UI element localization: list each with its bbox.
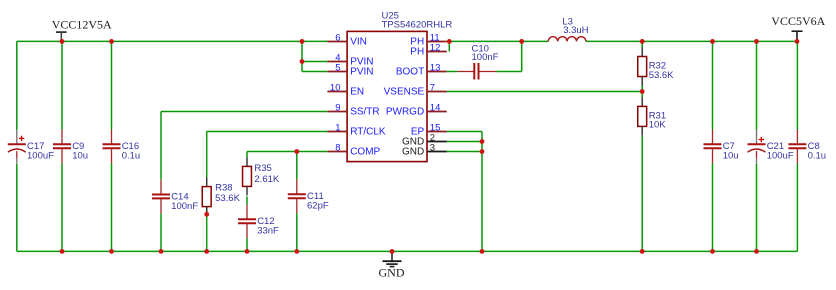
junction PVIN4 tap: [300, 59, 305, 64]
svg-text:5: 5: [335, 62, 340, 73]
svg-text:0.1u: 0.1u: [122, 151, 141, 162]
svg-text:12: 12: [430, 42, 441, 53]
wire R31 bottom link: [641, 135, 643, 251]
capacitor C9: [53, 130, 88, 164]
junction PH / R32: [640, 39, 645, 44]
wire C11 column upper: [296, 152, 298, 180]
capacitor C17: [8, 130, 54, 164]
svg-text:RT/CLK: RT/CLK: [350, 127, 386, 138]
wire C17 column upper: [16, 41, 18, 129]
pin 1 RT/CLK: [327, 122, 386, 137]
inductor L3: [548, 17, 588, 42]
svg-text:7: 7: [430, 82, 435, 93]
capacitor C10: [447, 43, 499, 79]
wire C12 column lower: [246, 238, 248, 251]
wire C9 column upper: [61, 41, 63, 129]
svg-text:100uF: 100uF: [27, 151, 54, 162]
pin 8 COMP: [327, 142, 380, 157]
wire GND pin3 link: [447, 151, 482, 153]
junction bottom bus / C12: [245, 249, 250, 254]
svg-text:10u: 10u: [723, 151, 739, 162]
wire COMP net: [247, 151, 327, 153]
junction COMP / C11: [294, 149, 299, 154]
junction PH pins tie: [447, 39, 452, 44]
junction bottom bus / C7: [710, 249, 715, 254]
wire C11 column lower: [296, 213, 298, 251]
wire R38 column lower: [206, 207, 208, 252]
junction VCC5V6A bus / C21: [754, 39, 759, 44]
wire EP GND riser: [481, 132, 483, 252]
junction VIN bus / C9 / VCC12V5A: [60, 39, 65, 44]
svg-text:VCC5V6A: VCC5V6A: [771, 14, 825, 28]
power flag VCC5V6A: [771, 14, 825, 41]
junction bottom bus / C11: [294, 249, 299, 254]
svg-text:10K: 10K: [649, 119, 667, 130]
wire VIN top bus: [17, 40, 328, 42]
svg-text:COMP: COMP: [350, 147, 380, 158]
svg-text:1: 1: [335, 122, 340, 133]
svg-text:VCC12V5A: VCC12V5A: [52, 18, 112, 32]
svg-text:PH: PH: [410, 47, 424, 58]
wire R32 top link: [641, 41, 643, 47]
power flag VCC12V5A: [52, 18, 112, 42]
resistor R32: [638, 48, 674, 86]
svg-text:33nF: 33nF: [257, 226, 279, 237]
wire C16 column lower: [111, 163, 113, 251]
svg-text:10u: 10u: [72, 151, 88, 162]
svg-text:VIN: VIN: [350, 37, 367, 48]
junction VSENSE divider tap: [640, 89, 645, 94]
svg-text:9: 9: [335, 102, 340, 113]
ground symbol GND: [379, 251, 405, 279]
wire C7 column upper: [712, 41, 714, 129]
pin 11 PH: [410, 32, 447, 47]
capacitor C7: [704, 130, 739, 164]
wire BOOT to C10 riser link: [496, 71, 522, 73]
svg-text:53.6K: 53.6K: [215, 193, 240, 204]
capacitor C16: [103, 130, 141, 164]
junction VCC5V6A flag / C8: [795, 39, 800, 44]
wire R35 to C12 link: [246, 196, 248, 204]
resistor R31: [638, 97, 667, 135]
junction bottom bus / C9: [60, 249, 65, 254]
wire PVIN drop: [301, 41, 303, 71]
svg-text:R35: R35: [254, 163, 271, 174]
resistor R35: [243, 157, 280, 195]
svg-text:PVIN: PVIN: [350, 67, 373, 78]
svg-text:0.1u: 0.1u: [808, 151, 827, 162]
wire PH to L3: [447, 40, 549, 42]
wire R35 top stub link: [246, 152, 248, 158]
wire C7 column lower: [712, 163, 714, 251]
pin 10 EN: [327, 82, 364, 97]
capacitor C11: [288, 180, 329, 214]
wire C21 column upper: [756, 41, 758, 129]
svg-text:2.61K: 2.61K: [254, 174, 279, 185]
pin 6 VIN: [327, 32, 366, 47]
wire PVIN pin5 link: [302, 71, 327, 73]
wire GND pin2 link: [447, 141, 482, 143]
capacitor C8: [788, 130, 826, 164]
junction R38 lower pin: [204, 212, 209, 217]
pin 15 EP: [411, 122, 447, 137]
wire C16 column upper: [111, 41, 113, 129]
wire RT/CLK to R38: [207, 131, 328, 133]
wire L3 to VCC5V6A bus: [586, 40, 798, 42]
wire PVIN pin4 link: [302, 61, 327, 63]
pin 4 PVIN: [327, 52, 373, 67]
svg-text:100uF: 100uF: [767, 151, 794, 162]
svg-text:GND: GND: [402, 147, 424, 158]
junction EP riser / GND2: [480, 139, 485, 144]
svg-text:14: 14: [430, 102, 441, 113]
svg-text:BOOT: BOOT: [396, 67, 424, 78]
svg-text:PWRGD: PWRGD: [386, 107, 424, 118]
pin 3 GND: [402, 142, 447, 157]
pin 13 BOOT: [396, 62, 447, 77]
junction PH / C10 riser: [519, 39, 524, 44]
svg-text:R38: R38: [215, 183, 232, 194]
IC U25 TPS54620RHLR: [347, 11, 452, 162]
pin 9 SS/TR: [327, 102, 379, 117]
pin 2 GND: [402, 132, 447, 147]
wire R38 column upper: [206, 132, 208, 178]
capacitor C21: [748, 130, 794, 164]
wire EP net: [447, 131, 482, 133]
junction bottom bus / R31: [640, 249, 645, 254]
capacitor C12: [238, 205, 279, 239]
svg-text:100nF: 100nF: [472, 52, 499, 63]
svg-text:VSENSE: VSENSE: [384, 87, 425, 98]
svg-text:3.3uH: 3.3uH: [563, 25, 588, 36]
capacitor C14: [152, 180, 198, 214]
wire C17 column lower: [16, 164, 18, 251]
svg-text:10: 10: [330, 82, 341, 93]
junction EP riser / GND3: [480, 149, 485, 154]
svg-text:TPS54620RHLR: TPS54620RHLR: [382, 20, 453, 31]
svg-text:6: 6: [335, 32, 340, 43]
resistor R38: [202, 178, 240, 216]
pin 7 VSENSE: [384, 82, 447, 97]
wire C8 column lower: [796, 163, 798, 251]
junction bottom bus / EP riser: [480, 249, 485, 254]
wire C8 column upper: [796, 41, 798, 129]
junction bottom bus / R38: [204, 249, 209, 254]
svg-text:8: 8: [335, 142, 340, 153]
wire C10 riser: [521, 41, 523, 71]
junction VIN bus / PVIN drop: [300, 39, 305, 44]
svg-text:62pF: 62pF: [307, 201, 329, 212]
wire PH pin12 riser: [448, 41, 450, 51]
junction bottom bus / C14: [159, 249, 164, 254]
svg-text:EN: EN: [350, 87, 364, 98]
pin 5 PVIN: [327, 62, 373, 77]
svg-text:3: 3: [430, 142, 435, 153]
wire C14 column upper: [160, 112, 162, 180]
wire C9 column lower: [61, 163, 63, 251]
junction bottom bus / GND symbol: [390, 249, 395, 254]
wire GND bottom bus: [17, 250, 798, 252]
svg-text:GND: GND: [379, 266, 405, 280]
pin 12 PH: [410, 42, 447, 57]
svg-text:100nF: 100nF: [171, 201, 198, 212]
junction VCC5V6A bus / C7: [710, 39, 715, 44]
wire R32 R31 mid link: [641, 85, 643, 98]
svg-text:SS/TR: SS/TR: [350, 107, 379, 118]
wire VSENSE to divider: [447, 91, 642, 93]
pin 14 PWRGD: [386, 102, 447, 117]
junction bottom bus / C16: [109, 249, 114, 254]
wire C14 column lower: [160, 213, 162, 251]
junction VIN bus / C16: [109, 39, 114, 44]
svg-text:13: 13: [430, 62, 441, 73]
wire C21 column lower: [756, 164, 758, 251]
svg-text:53.6K: 53.6K: [649, 70, 674, 81]
wire SS/TR to C14: [161, 111, 327, 113]
junction bottom bus / C21: [754, 249, 759, 254]
